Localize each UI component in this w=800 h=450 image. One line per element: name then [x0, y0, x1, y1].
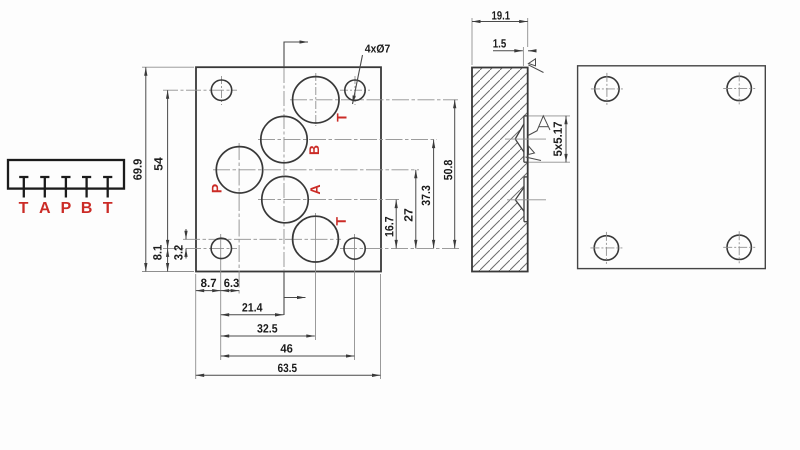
centerline vertical top-right hole — [354, 76, 356, 105]
port hole T bottom — [293, 216, 339, 262]
centerline vertical bottom-right hole extending to 46 dim — [354, 234, 356, 360]
centerline B hole horizontal to 37.3 dim — [258, 139, 437, 141]
symmetry arrow top — [284, 42, 308, 67]
port tick A — [40, 177, 49, 198]
hole top-right mounting — [345, 80, 365, 100]
centerline P hole vertical extending to 6.3 dim — [238, 143, 240, 295]
extension line 1.5 — [522, 47, 524, 66]
port hole T top — [293, 77, 339, 123]
schematic port label T (right) — [103, 202, 112, 213]
schematic port label B — [82, 202, 92, 213]
dimension 50.8 — [454, 100, 456, 249]
dimension 6.3 — [221, 290, 239, 292]
extension line top for 69.9 — [142, 66, 194, 68]
port tick T1 — [19, 177, 28, 198]
extension lines 5x5.17 — [529, 116, 571, 162]
centerline top T hole vertical — [315, 73, 317, 126]
surface flag upper notch — [528, 116, 550, 136]
dimension 16.7 — [395, 200, 397, 249]
symmetry arrow bottom — [284, 272, 306, 316]
centerline horizontal top-right hole — [340, 89, 370, 91]
dimension 8.7 — [196, 290, 221, 292]
back plate hole top-right — [723, 72, 755, 104]
plate outline (front view) — [196, 67, 381, 271]
dimension 69.9 — [145, 67, 147, 271]
port hole P — [216, 147, 262, 193]
dimension 27 — [415, 170, 417, 249]
leader 4xO7 — [353, 55, 363, 104]
label 4xO7 — [365, 44, 390, 53]
back plate hole top-left — [591, 73, 623, 105]
lower notch white wedge — [515, 187, 524, 212]
back plate hole bottom-left — [590, 232, 622, 264]
lower port notch outline — [515, 177, 527, 222]
schematic port label P — [62, 202, 71, 213]
port letter T top (rotated) — [337, 113, 347, 121]
upper notch centerline — [505, 138, 546, 140]
back plate hole bottom-right — [723, 231, 755, 263]
dimension 5x5.17 — [565, 116, 567, 163]
port hole A — [262, 176, 308, 222]
hole bottom-left mounting — [211, 238, 231, 258]
port labels T A P B T — [19, 202, 113, 213]
back plate outline — [578, 66, 766, 269]
centerline P hole horizontal to 27 dim — [213, 169, 419, 171]
extension line plate right edge down — [380, 274, 382, 379]
port tick P — [61, 177, 70, 198]
centerline bottom T hole vertical extending to 32.5 dim — [315, 213, 317, 340]
schematic port label A — [39, 202, 50, 213]
surface flag lower — [526, 146, 542, 161]
extension lines 19.1 — [472, 18, 528, 65]
section outline — [472, 68, 528, 272]
lower notch white slot — [524, 177, 527, 222]
dimension 19.1 — [472, 21, 528, 23]
hatched section body — [472, 68, 528, 272]
dimension 1.5 (outside arrows) — [493, 50, 536, 52]
centerline top T hole horizontal to 50.8 dim — [290, 99, 458, 101]
hole top-left mounting — [211, 80, 231, 100]
port letter P (rotated) — [212, 184, 222, 192]
centerline A hole horizontal to 16.7 dim — [258, 199, 399, 201]
dimension 32.5 — [221, 335, 315, 337]
upper notch white wedge — [515, 124, 524, 153]
upper port notch outline — [515, 116, 527, 162]
centerline vertical B/A x=284 — [283, 68, 285, 271]
extension line bottom for 69.9/8.1 — [142, 271, 194, 273]
extension line plate left edge down — [195, 274, 197, 379]
centerline horizontal bottom-left hole / 54-8.1 extension — [163, 247, 237, 249]
dimension 8.1 — [167, 248, 169, 271]
centerline bottom T hole horizontal / 3.2 extension — [183, 238, 341, 240]
port letter T bottom (rotated) — [336, 217, 346, 225]
dimension 37.3 — [433, 140, 435, 249]
centerline horizontal top-left hole / 54 extension — [163, 89, 237, 91]
dimension 63.5 — [196, 374, 381, 376]
surface flag top — [528, 59, 543, 73]
port tick B — [82, 177, 91, 198]
schematic port label T (left) — [19, 202, 28, 213]
port tick T2 — [103, 177, 112, 198]
centerline vertical bottom-left hole extending to bottom dims — [220, 234, 222, 360]
port letter B (rotated) — [309, 146, 319, 155]
centerline vertical top-left hole — [221, 76, 223, 105]
centerline horizontal bottom-right hole to right dims — [340, 247, 459, 249]
dimension 3.2 (outside arrows) — [185, 229, 187, 259]
port hole B — [261, 116, 307, 162]
dimension 46 — [221, 355, 355, 357]
dimension 54 — [167, 90, 169, 248]
dimension 21.4 — [221, 314, 284, 316]
upper notch white slot — [524, 116, 527, 162]
hole bottom-right mounting — [344, 238, 365, 259]
port letter A (rotated) — [310, 185, 320, 194]
schematic body rectangle — [8, 160, 124, 189]
lower notch centerline — [507, 199, 546, 201]
